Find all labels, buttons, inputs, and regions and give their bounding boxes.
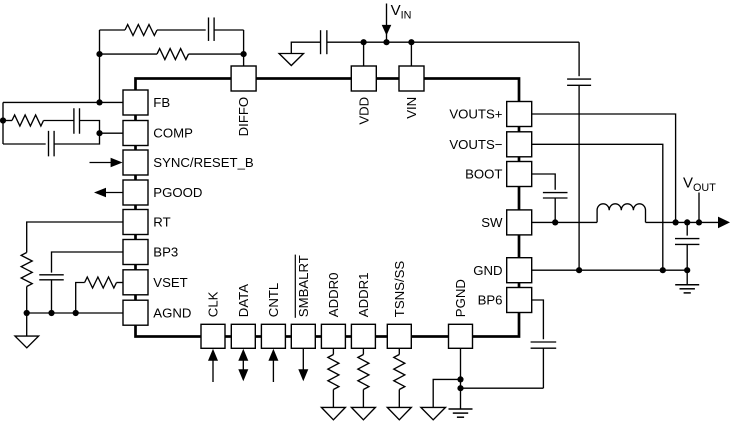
svg-text:PGND: PGND <box>453 279 468 317</box>
svg-text:FB: FB <box>153 95 170 110</box>
svg-text:DATA: DATA <box>236 284 251 317</box>
svg-text:VSET: VSET <box>153 275 187 290</box>
svg-text:VDD: VDD <box>356 97 371 125</box>
svg-text:CNTL: CNTL <box>266 283 281 317</box>
svg-text:ADDR1: ADDR1 <box>356 272 371 317</box>
svg-text:TSNS/SS: TSNS/SS <box>392 261 407 318</box>
svg-text:BOOT: BOOT <box>465 167 502 182</box>
svg-text:PGOOD: PGOOD <box>153 185 202 200</box>
svg-text:COMP: COMP <box>153 126 193 141</box>
svg-text:VOUTS−: VOUTS− <box>449 137 502 152</box>
svg-text:SYNC/RESET_B: SYNC/RESET_B <box>153 155 254 170</box>
svg-text:CLK: CLK <box>206 291 221 317</box>
svg-text:BP3: BP3 <box>153 245 178 260</box>
svg-text:AGND: AGND <box>153 305 191 320</box>
svg-text:VOUTS+: VOUTS+ <box>449 107 502 122</box>
svg-text:GND: GND <box>473 263 502 278</box>
svg-text:DIFFO: DIFFO <box>236 97 251 137</box>
svg-text:SW: SW <box>481 215 503 230</box>
svg-text:RT: RT <box>153 215 170 230</box>
svg-text:ADDR0: ADDR0 <box>326 272 341 317</box>
svg-text:VIN: VIN <box>404 97 419 119</box>
svg-text:SMBALRT: SMBALRT <box>296 255 311 317</box>
svg-text:BP6: BP6 <box>478 293 503 308</box>
